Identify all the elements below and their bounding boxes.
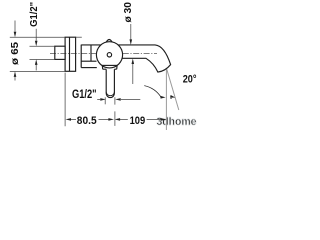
svg-text:80.5: 80.5 (77, 115, 97, 127)
svg-text:109: 109 (130, 115, 146, 127)
svg-text:ø 30: ø 30 (122, 2, 134, 23)
svg-text:G1/2": G1/2" (28, 2, 40, 27)
svg-text:G1/2": G1/2" (72, 87, 97, 101)
svg-text:20°: 20° (183, 74, 197, 86)
svg-text:3dhome: 3dhome (157, 116, 197, 128)
svg-text:ø 65: ø 65 (9, 42, 21, 65)
